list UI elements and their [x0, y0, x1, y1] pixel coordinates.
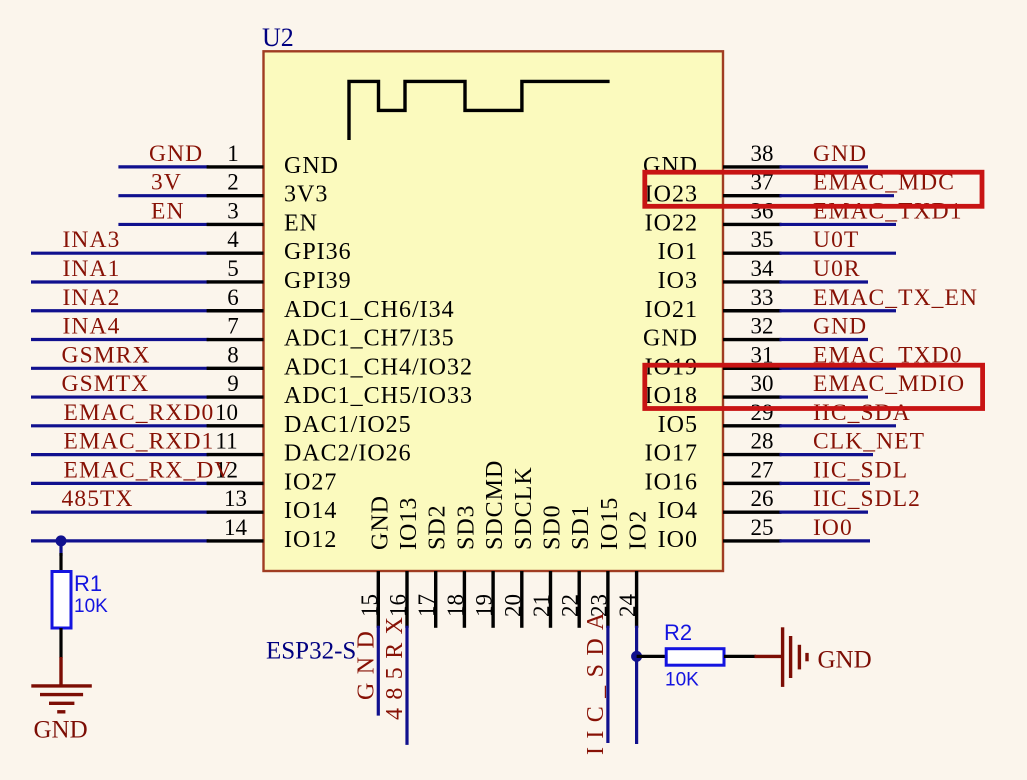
junction node on pin 14 wire: [56, 535, 67, 546]
wire net from pin 33: [780, 309, 897, 312]
pin 32 stub: [723, 338, 782, 341]
svg-text:3: 3: [227, 198, 239, 223]
pin 21 stub: [549, 571, 552, 628]
pin 14 stub: [207, 539, 264, 542]
svg-text:26: 26: [751, 486, 774, 511]
svg-text:DAC2/IO26: DAC2/IO26: [284, 441, 412, 467]
pin 11 stub: [207, 453, 264, 456]
wire junction to R2: [637, 655, 666, 658]
svg-text:GND: GND: [149, 141, 203, 167]
wire net to pin 3: [118, 223, 208, 226]
wire net to pin 8: [31, 367, 209, 370]
pin 7 stub: [207, 338, 264, 341]
wire net from pin 28: [780, 453, 874, 456]
pin 27 stub: [723, 482, 782, 485]
pin 22 stub: [578, 571, 581, 628]
pin 34 stub: [723, 280, 782, 283]
svg-text:34: 34: [751, 256, 775, 281]
svg-text:IIC_SDL: IIC_SDL: [813, 457, 908, 483]
svg-text:2: 2: [227, 170, 239, 195]
svg-text:ESP32-S: ESP32-S: [266, 638, 356, 665]
pin 9 stub: [207, 395, 264, 398]
svg-text:21: 21: [529, 594, 554, 617]
svg-text:GPI36: GPI36: [284, 239, 352, 265]
svg-text:3V3: 3V3: [284, 182, 328, 208]
svg-text:EMAC_RXD1: EMAC_RXD1: [64, 429, 215, 455]
wire net to pin 2: [118, 194, 208, 197]
svg-text:5: 5: [227, 256, 239, 281]
wire net from pin 34: [780, 280, 869, 283]
pin 29 stub: [723, 424, 782, 427]
svg-text:GND: GND: [353, 623, 379, 700]
wire net from pin 37: [780, 194, 895, 197]
wire net to pin 13: [31, 511, 209, 514]
wire net from pin 26: [780, 511, 869, 514]
ground GND stem below R1: [59, 657, 62, 686]
svg-text:INA1: INA1: [63, 256, 121, 282]
pin 36 stub: [723, 223, 782, 226]
pin 5 stub: [207, 280, 264, 283]
wire net to pin 1: [118, 165, 208, 168]
svg-text:485RX: 485RX: [382, 609, 408, 720]
pin 23 stub: [606, 571, 609, 628]
svg-text:IO0: IO0: [813, 515, 853, 541]
svg-text:R2: R2: [664, 620, 692, 645]
pin 12 stub: [207, 482, 264, 485]
svg-text:18: 18: [443, 594, 468, 617]
wire net to pin 9: [31, 395, 209, 398]
wire net to pin 4: [31, 252, 209, 255]
pin 16 stub: [405, 571, 408, 628]
svg-text:IIC_SDA: IIC_SDA: [813, 400, 911, 426]
pin 28 stub: [723, 453, 782, 456]
svg-text:GND: GND: [643, 153, 698, 179]
svg-text:3V: 3V: [151, 170, 182, 196]
svg-text:SDCLK: SDCLK: [511, 466, 537, 550]
svg-text:10: 10: [215, 400, 238, 425]
svg-text:INA3: INA3: [63, 227, 121, 253]
wire junction to R1: [59, 541, 62, 556]
resistor R1 bottom lead: [59, 628, 62, 658]
pin 18 stub: [463, 571, 466, 628]
svg-text:IO2: IO2: [626, 510, 652, 550]
svg-text:10K: 10K: [665, 670, 699, 691]
svg-text:ADC1_CH4/IO32: ADC1_CH4/IO32: [284, 354, 473, 380]
wire net to pin 11: [31, 453, 209, 456]
svg-text:30: 30: [751, 371, 774, 396]
pin 25 stub: [723, 539, 782, 542]
pin 31 stub: [723, 367, 782, 370]
svg-text:IO22: IO22: [645, 210, 698, 236]
svg-text:CLK_NET: CLK_NET: [813, 429, 925, 455]
svg-text:SDCMD: SDCMD: [482, 460, 508, 550]
svg-text:IO17: IO17: [645, 441, 698, 467]
svg-text:GND: GND: [367, 495, 393, 550]
svg-text:29: 29: [751, 400, 774, 425]
wire from pin 24: [635, 626, 638, 744]
svg-text:EMAC_TX_EN: EMAC_TX_EN: [813, 285, 978, 311]
wire from pin 15: [377, 626, 380, 716]
pin 30 stub: [723, 395, 782, 398]
svg-text:IIC_SDA: IIC_SDA: [583, 604, 609, 755]
svg-text:20: 20: [500, 594, 525, 617]
svg-text:27: 27: [751, 457, 774, 482]
svg-text:4: 4: [227, 227, 239, 252]
svg-text:1: 1: [227, 141, 239, 166]
svg-text:IIC_SDL2: IIC_SDL2: [813, 486, 921, 512]
wire net to pin 12: [31, 482, 209, 485]
svg-text:ADC1_CH5/IO33: ADC1_CH5/IO33: [284, 383, 473, 409]
svg-text:22: 22: [558, 594, 583, 617]
svg-text:GSMRX: GSMRX: [62, 342, 151, 368]
svg-text:IO0: IO0: [658, 527, 698, 553]
svg-text:7: 7: [227, 314, 239, 339]
svg-text:IO12: IO12: [284, 527, 337, 553]
svg-text:11: 11: [215, 429, 237, 454]
svg-text:IO13: IO13: [396, 497, 422, 550]
pin 6 stub: [207, 309, 264, 312]
svg-text:EN: EN: [284, 210, 318, 236]
pin 17 stub: [434, 571, 437, 628]
wire net to pin 5: [31, 280, 209, 283]
wire from pin 16: [405, 626, 408, 745]
pin 35 stub: [723, 252, 782, 255]
wire net to pin 7: [31, 338, 209, 341]
svg-text:IO3: IO3: [658, 268, 698, 294]
svg-text:33: 33: [751, 285, 774, 310]
wire net from pin 29: [780, 424, 897, 427]
pin 26 stub: [723, 510, 782, 513]
svg-text:38: 38: [751, 141, 774, 166]
svg-text:U0T: U0T: [813, 227, 859, 253]
svg-text:35: 35: [751, 227, 774, 252]
pin 15 stub: [377, 571, 380, 628]
pin 24 stub: [635, 571, 638, 628]
svg-text:IO5: IO5: [658, 412, 698, 438]
wire net from pin 35: [780, 252, 897, 255]
svg-text:INA4: INA4: [63, 314, 121, 340]
svg-text:INA2: INA2: [63, 285, 121, 311]
pin 37 stub: [723, 194, 782, 197]
svg-text:ADC1_CH7/I35: ADC1_CH7/I35: [284, 326, 455, 352]
resistor R2 right lead: [724, 655, 756, 658]
wire net from pin 30: [780, 395, 869, 398]
ground GND symbol right of R2: [783, 627, 807, 687]
svg-text:IO4: IO4: [658, 498, 698, 524]
wire net to pin 6: [31, 309, 209, 312]
pin 2 stub: [207, 194, 264, 197]
pin 13 stub: [207, 510, 264, 513]
svg-text:IO15: IO15: [597, 497, 623, 550]
svg-text:GND: GND: [643, 326, 698, 352]
svg-text:GND: GND: [813, 314, 867, 340]
pin 19 stub: [491, 571, 494, 628]
wire net from pin 27: [780, 482, 871, 485]
red highlight box around pin 30 EMAC_MDIO: [645, 365, 983, 408]
svg-text:SD1: SD1: [568, 504, 594, 550]
pin 10 stub: [207, 424, 264, 427]
svg-text:IO14: IO14: [284, 498, 337, 524]
wire net from pin 36: [780, 223, 897, 226]
svg-text:IO27: IO27: [284, 469, 337, 495]
svg-text:IO1: IO1: [658, 239, 698, 265]
ground GND symbol below R1: [31, 686, 92, 712]
resistor R1 body: [52, 572, 71, 629]
svg-text:R1: R1: [74, 571, 102, 596]
svg-text:SD0: SD0: [540, 504, 566, 550]
svg-text:GND: GND: [34, 717, 88, 744]
svg-text:GPI39: GPI39: [284, 268, 352, 294]
svg-text:U2: U2: [262, 23, 294, 52]
svg-text:EN: EN: [151, 198, 185, 224]
svg-text:IO18: IO18: [645, 383, 698, 409]
svg-text:GSMTX: GSMTX: [62, 371, 150, 397]
svg-text:28: 28: [751, 429, 774, 454]
pin 4 stub: [207, 252, 264, 255]
wire net from pin 38: [780, 165, 869, 168]
svg-text:8: 8: [227, 342, 239, 367]
red highlight box around pin 37 EMAC_MDC: [645, 172, 982, 206]
junction node on pin 24 wire: [631, 651, 642, 662]
wire net from pin 31: [780, 367, 897, 370]
pin 3 stub: [207, 223, 264, 226]
svg-text:SD2: SD2: [425, 504, 451, 550]
pin 20 stub: [520, 571, 523, 628]
antenna squiggle inside U2: [349, 81, 610, 140]
svg-text:14: 14: [224, 515, 248, 540]
svg-text:17: 17: [414, 594, 439, 617]
svg-text:36: 36: [751, 198, 774, 223]
pin 38 stub: [723, 165, 782, 168]
svg-text:GND: GND: [818, 647, 872, 674]
svg-text:EMAC_MDIO: EMAC_MDIO: [813, 371, 965, 397]
svg-text:EMAC_RX_DV: EMAC_RX_DV: [64, 457, 233, 483]
svg-text:EMAC_RXD0: EMAC_RXD0: [64, 400, 215, 426]
svg-text:10K: 10K: [74, 596, 108, 617]
svg-text:EMAC_TXD1: EMAC_TXD1: [813, 198, 963, 224]
svg-text:U0R: U0R: [813, 256, 861, 282]
svg-text:485TX: 485TX: [62, 486, 134, 512]
svg-text:ADC1_CH6/I34: ADC1_CH6/I34: [284, 297, 455, 323]
svg-text:GND: GND: [813, 141, 867, 167]
wire net to pin 10: [31, 424, 209, 427]
pin 33 stub: [723, 309, 782, 312]
wire net to pin 14: [31, 539, 209, 542]
svg-text:IO16: IO16: [645, 469, 698, 495]
svg-text:13: 13: [224, 486, 247, 511]
wire from pin 23: [606, 626, 609, 743]
wire net from pin 25: [780, 539, 871, 542]
resistor R1 top lead: [59, 553, 62, 572]
wire net from pin 32: [780, 338, 869, 341]
svg-text:19: 19: [472, 594, 497, 617]
ground GND stem right of R2: [755, 655, 784, 658]
pin 1 stub: [207, 165, 264, 168]
svg-text:IO23: IO23: [645, 182, 698, 208]
svg-text:IO21: IO21: [645, 297, 698, 323]
svg-text:DAC1/IO25: DAC1/IO25: [284, 412, 412, 438]
svg-text:SD3: SD3: [453, 504, 479, 550]
svg-text:GND: GND: [284, 153, 339, 179]
svg-text:9: 9: [227, 371, 239, 396]
IC U2 ESP32-S module body: [264, 51, 724, 571]
resistor R2 body: [666, 649, 724, 666]
svg-text:6: 6: [227, 285, 239, 310]
svg-text:32: 32: [751, 314, 774, 339]
pin 8 stub: [207, 367, 264, 370]
svg-text:15: 15: [357, 594, 382, 617]
svg-text:24: 24: [615, 594, 640, 618]
svg-text:25: 25: [751, 515, 774, 540]
